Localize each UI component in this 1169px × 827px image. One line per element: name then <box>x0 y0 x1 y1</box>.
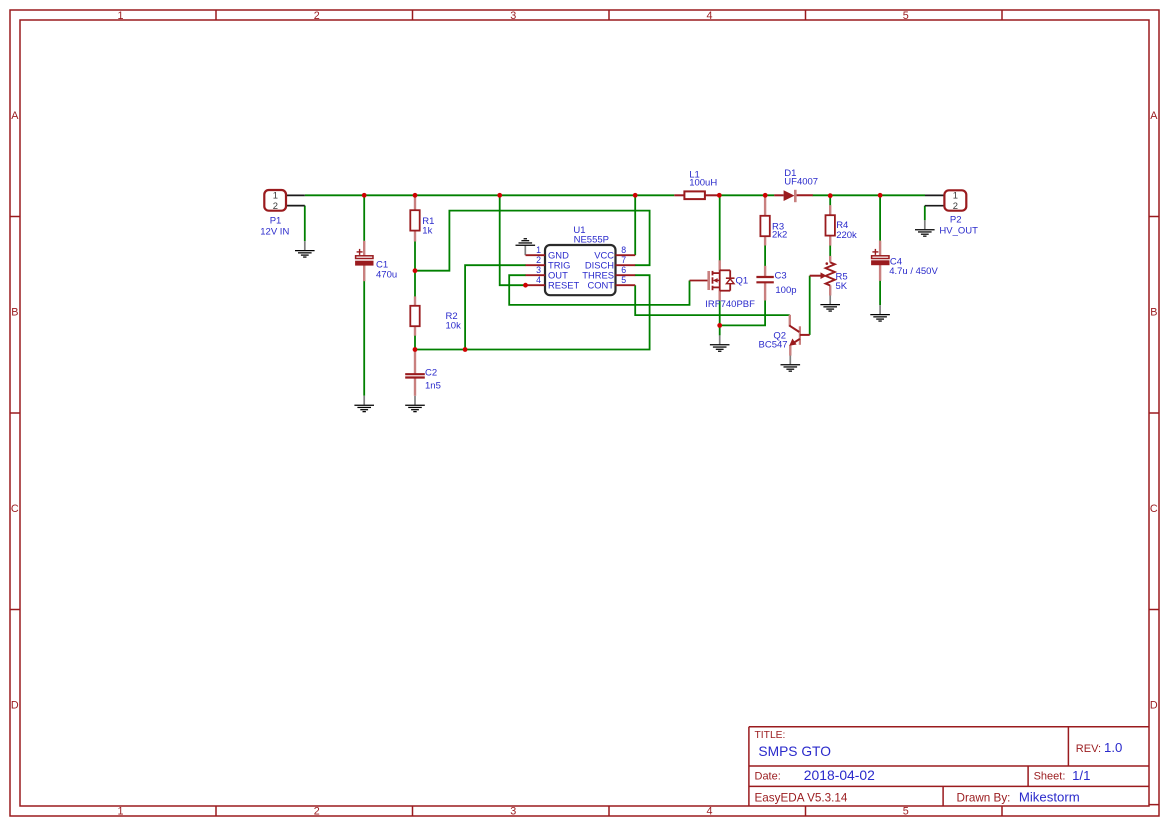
svg-text:IRF740PBF: IRF740PBF <box>705 299 755 310</box>
Q2 emitter pin <box>789 345 791 356</box>
P1 pin 1 wire <box>286 194 305 196</box>
junction dot D1 anode node <box>763 193 768 198</box>
svg-text:4: 4 <box>706 10 712 22</box>
junction dot R1-R2 node <box>413 268 418 273</box>
junction dot TRIG-THRES node <box>463 347 468 352</box>
potentiometer R5 wiper arrow <box>810 275 822 277</box>
wire R4 bottom to R5 top <box>829 245 831 256</box>
junction dot R2-C2 node <box>413 347 418 352</box>
svg-text:3: 3 <box>536 265 541 275</box>
connector P2 <box>944 190 966 210</box>
junction dot C4 branch <box>878 193 883 198</box>
title block outline <box>749 727 1159 807</box>
resistor R3 <box>760 216 769 236</box>
ground below Q2 emitter <box>789 355 791 364</box>
ground at P1 pin2 <box>304 241 306 250</box>
ground below P2 pin2 <box>924 220 926 229</box>
svg-text:B: B <box>1150 307 1157 319</box>
svg-text:470u: 470u <box>376 269 397 280</box>
svg-text:100uH: 100uH <box>689 178 717 189</box>
resistor R2 <box>410 306 419 326</box>
U1 left pin stubs <box>526 254 546 256</box>
wire RESET pin 4 to bus <box>500 195 526 285</box>
svg-text:SMPS GTO: SMPS GTO <box>758 744 831 759</box>
svg-text:REV:: REV: <box>1076 743 1101 755</box>
wire R1-R2 node to DISCH pin 7 <box>415 211 650 271</box>
svg-text:4: 4 <box>536 275 541 285</box>
svg-text:5: 5 <box>903 806 909 818</box>
junction dot Q1 source node <box>717 323 722 328</box>
connector P1 <box>264 190 286 211</box>
capacitor C2 <box>405 373 425 375</box>
svg-text:C: C <box>1150 503 1158 515</box>
svg-text:2: 2 <box>314 10 320 22</box>
R3 pins <box>764 197 766 217</box>
svg-text:CONT: CONT <box>587 280 614 291</box>
svg-text:2: 2 <box>536 255 541 265</box>
wire Q1 source to ground node <box>719 301 721 336</box>
svg-text:1.0: 1.0 <box>1104 740 1122 755</box>
inductor L1 <box>674 194 684 196</box>
svg-text:TITLE:: TITLE: <box>755 730 786 741</box>
capacitor C3 <box>756 276 773 278</box>
svg-text:3: 3 <box>510 806 516 818</box>
R4 pins <box>829 205 831 215</box>
C1 pins <box>363 241 365 256</box>
transistor Q1 MOSFET IRF740PBF <box>690 280 708 282</box>
wire main 12V bus P1 to L1 <box>305 194 675 196</box>
wire bus to R1 top <box>414 195 416 210</box>
C2 pins <box>414 350 416 374</box>
wire C1 bottom to ground <box>363 265 365 395</box>
svg-text:Drawn By:: Drawn By: <box>957 791 1011 804</box>
frame column ticks top <box>215 10 217 20</box>
wire TRIG pin 2 to bottom node <box>465 265 526 349</box>
wire node to R2 top <box>414 271 416 306</box>
ground below R5 <box>829 295 831 304</box>
svg-text:C3: C3 <box>775 271 787 282</box>
wire R1 bottom to node <box>414 241 416 271</box>
ground below C4 <box>879 305 881 314</box>
C4 pins <box>879 241 881 256</box>
frame row ticks left <box>10 216 20 218</box>
svg-text:4.7u / 450V: 4.7u / 450V <box>889 266 938 277</box>
P2 pin 1 wire <box>925 194 944 196</box>
svg-text:10k: 10k <box>446 321 462 332</box>
wire R3 bottom to C3 top <box>764 245 766 266</box>
ground below Q1 source <box>719 335 721 344</box>
op-amp U1 NE555P body <box>545 245 616 295</box>
capacitor C4 polarized <box>872 251 878 253</box>
svg-text:5: 5 <box>903 10 909 22</box>
svg-text:Sheet:: Sheet: <box>1034 771 1066 783</box>
resistor R4 <box>826 215 835 235</box>
wire P1 pin2 to ground <box>304 206 306 242</box>
Q1 drain and source pins <box>719 260 721 270</box>
svg-text:D: D <box>1150 700 1158 712</box>
svg-text:6: 6 <box>621 265 626 275</box>
svg-text:7: 7 <box>621 255 626 265</box>
svg-text:1: 1 <box>117 806 123 818</box>
wire VCC pin 8 to bus <box>634 195 636 255</box>
svg-text:HV_OUT: HV_OUT <box>939 225 978 236</box>
R1 pins <box>414 197 416 211</box>
frame row ticks right <box>1149 216 1159 218</box>
svg-text:C: C <box>11 503 19 515</box>
svg-text:D: D <box>11 700 19 712</box>
P2 pin 2 wire <box>925 205 945 207</box>
svg-text:RESET: RESET <box>548 280 580 291</box>
wire C1 branch from bus <box>363 195 365 241</box>
svg-text:Date:: Date: <box>755 771 781 783</box>
svg-text:4: 4 <box>706 806 712 818</box>
svg-text:EasyEDA V5.3.14: EasyEDA V5.3.14 <box>755 791 848 804</box>
wire L1 to D1 node <box>719 194 774 196</box>
wire P2 pin2 to ground <box>924 206 926 221</box>
R2 pins <box>414 296 416 306</box>
svg-text:2: 2 <box>953 200 958 211</box>
svg-text:Mikestorm: Mikestorm <box>1019 789 1080 804</box>
svg-text:100p: 100p <box>775 285 796 296</box>
wire Q2 collector to R5 wiper <box>809 276 811 335</box>
wire Q1 drain to L1-D1 node <box>719 195 721 260</box>
svg-text:5K: 5K <box>836 281 848 292</box>
wire R2 bottom to node <box>414 326 416 350</box>
diode D1 UF4007 <box>774 194 783 196</box>
svg-text:2: 2 <box>314 806 320 818</box>
svg-text:C2: C2 <box>425 368 437 379</box>
svg-text:BC547: BC547 <box>759 339 788 350</box>
svg-text:8: 8 <box>621 245 626 255</box>
capacitor C1 polarized <box>357 251 363 253</box>
svg-text:2: 2 <box>273 200 278 211</box>
svg-text:2k2: 2k2 <box>772 229 787 240</box>
svg-text:220k: 220k <box>836 230 857 241</box>
ground below C2 <box>414 396 416 405</box>
wire Q1 source node to C3 bottom <box>720 300 765 325</box>
svg-text:A: A <box>1150 110 1158 122</box>
svg-text:1/1: 1/1 <box>1072 768 1090 783</box>
U1 right pin stubs <box>616 254 636 256</box>
C3 pins <box>764 266 766 277</box>
potentiometer R5 star marker <box>826 262 829 265</box>
svg-text:1n5: 1n5 <box>425 380 441 391</box>
junction dot R4 branch <box>828 193 833 198</box>
svg-text:B: B <box>11 307 18 319</box>
svg-text:1: 1 <box>536 245 541 255</box>
junction dots on 12V bus <box>362 193 367 198</box>
svg-text:P1: P1 <box>270 216 282 227</box>
svg-text:Q1: Q1 <box>736 275 749 286</box>
wire THRES pin 6 to R2-C2 node <box>415 275 650 349</box>
wire OUT pin 3 to Q1 gate <box>509 275 689 305</box>
svg-text:3: 3 <box>510 10 516 22</box>
frame column ticks bottom <box>215 806 217 816</box>
svg-text:UF4007: UF4007 <box>784 176 818 187</box>
wire C4 bottom to ground <box>879 264 881 305</box>
R5 pins <box>829 256 831 263</box>
wire bus to C4 top <box>879 195 881 241</box>
svg-text:A: A <box>11 110 19 122</box>
svg-text:NE555P: NE555P <box>574 234 609 245</box>
potentiometer R5 <box>826 262 835 285</box>
wire bus to R4 top <box>829 195 831 205</box>
svg-text:1k: 1k <box>422 225 432 236</box>
ground at U1 pin1 flipped <box>524 246 526 256</box>
wire CONT pin 5 to Q2 base <box>635 285 790 315</box>
resistor R1 <box>410 210 419 230</box>
svg-text:P2: P2 <box>950 215 962 226</box>
wire D1 cathode to P2 output bus <box>813 194 926 196</box>
svg-text:1: 1 <box>117 10 123 22</box>
svg-text:5: 5 <box>621 275 626 285</box>
svg-text:2018-04-02: 2018-04-02 <box>804 767 875 783</box>
svg-text:12V IN: 12V IN <box>260 226 289 237</box>
Q2 base pin <box>789 315 791 326</box>
junction dot RESET pin <box>523 283 528 288</box>
ground below C1 <box>363 396 365 405</box>
P1 pin 2 wire <box>286 205 305 207</box>
junction dot L1-D1 node <box>717 193 722 198</box>
transistor Q2 BC547 <box>799 326 801 345</box>
